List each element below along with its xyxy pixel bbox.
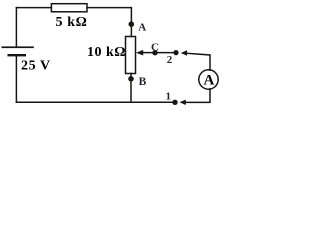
resistor R1 body — [51, 4, 87, 12]
ammeter A1 circle — [199, 70, 218, 89]
wire: ammeter bottom to corner to switch blade 1 — [185, 89, 210, 103]
node 2 junction dot — [173, 50, 178, 55]
switch contact arrowhead at node 1 — [180, 100, 186, 105]
wiper arrowhead into pot — [136, 50, 143, 56]
svg-text:B: B — [139, 76, 147, 88]
wire: switch blade 2 to right corner and down to ammeter — [186, 53, 210, 70]
wire: bottom rail from battery to node 1 — [16, 101, 175, 103]
svg-text:10 kΩ: 10 kΩ — [87, 45, 126, 60]
node 1 junction dot — [172, 100, 177, 105]
svg-text:A: A — [204, 73, 215, 89]
node C junction dot — [152, 50, 157, 55]
wire: wiper arm to node 2 — [143, 52, 177, 54]
battery V1 long plate — [2, 46, 34, 48]
svg-text:5 kΩ: 5 kΩ — [56, 15, 88, 30]
svg-text:1: 1 — [166, 90, 172, 102]
wire: top left segment — [16, 7, 51, 9]
node B junction dot — [128, 76, 134, 82]
switch contact arrowhead at node 2 — [181, 50, 187, 55]
svg-text:2: 2 — [167, 54, 173, 66]
wire: left vertical battery bottom lead — [15, 55, 17, 102]
battery V1 short plate — [8, 54, 27, 56]
wire: pot bottom through node B to bottom rail — [130, 74, 132, 103]
svg-text:C: C — [151, 42, 159, 54]
svg-text:25 V: 25 V — [21, 58, 51, 73]
potentiometer R2 body — [126, 37, 136, 74]
node A junction dot — [129, 21, 135, 27]
wire: left vertical battery top lead — [15, 8, 17, 48]
wire: top right segment with corner down to pot top — [87, 8, 131, 37]
svg-text:A: A — [138, 22, 146, 34]
